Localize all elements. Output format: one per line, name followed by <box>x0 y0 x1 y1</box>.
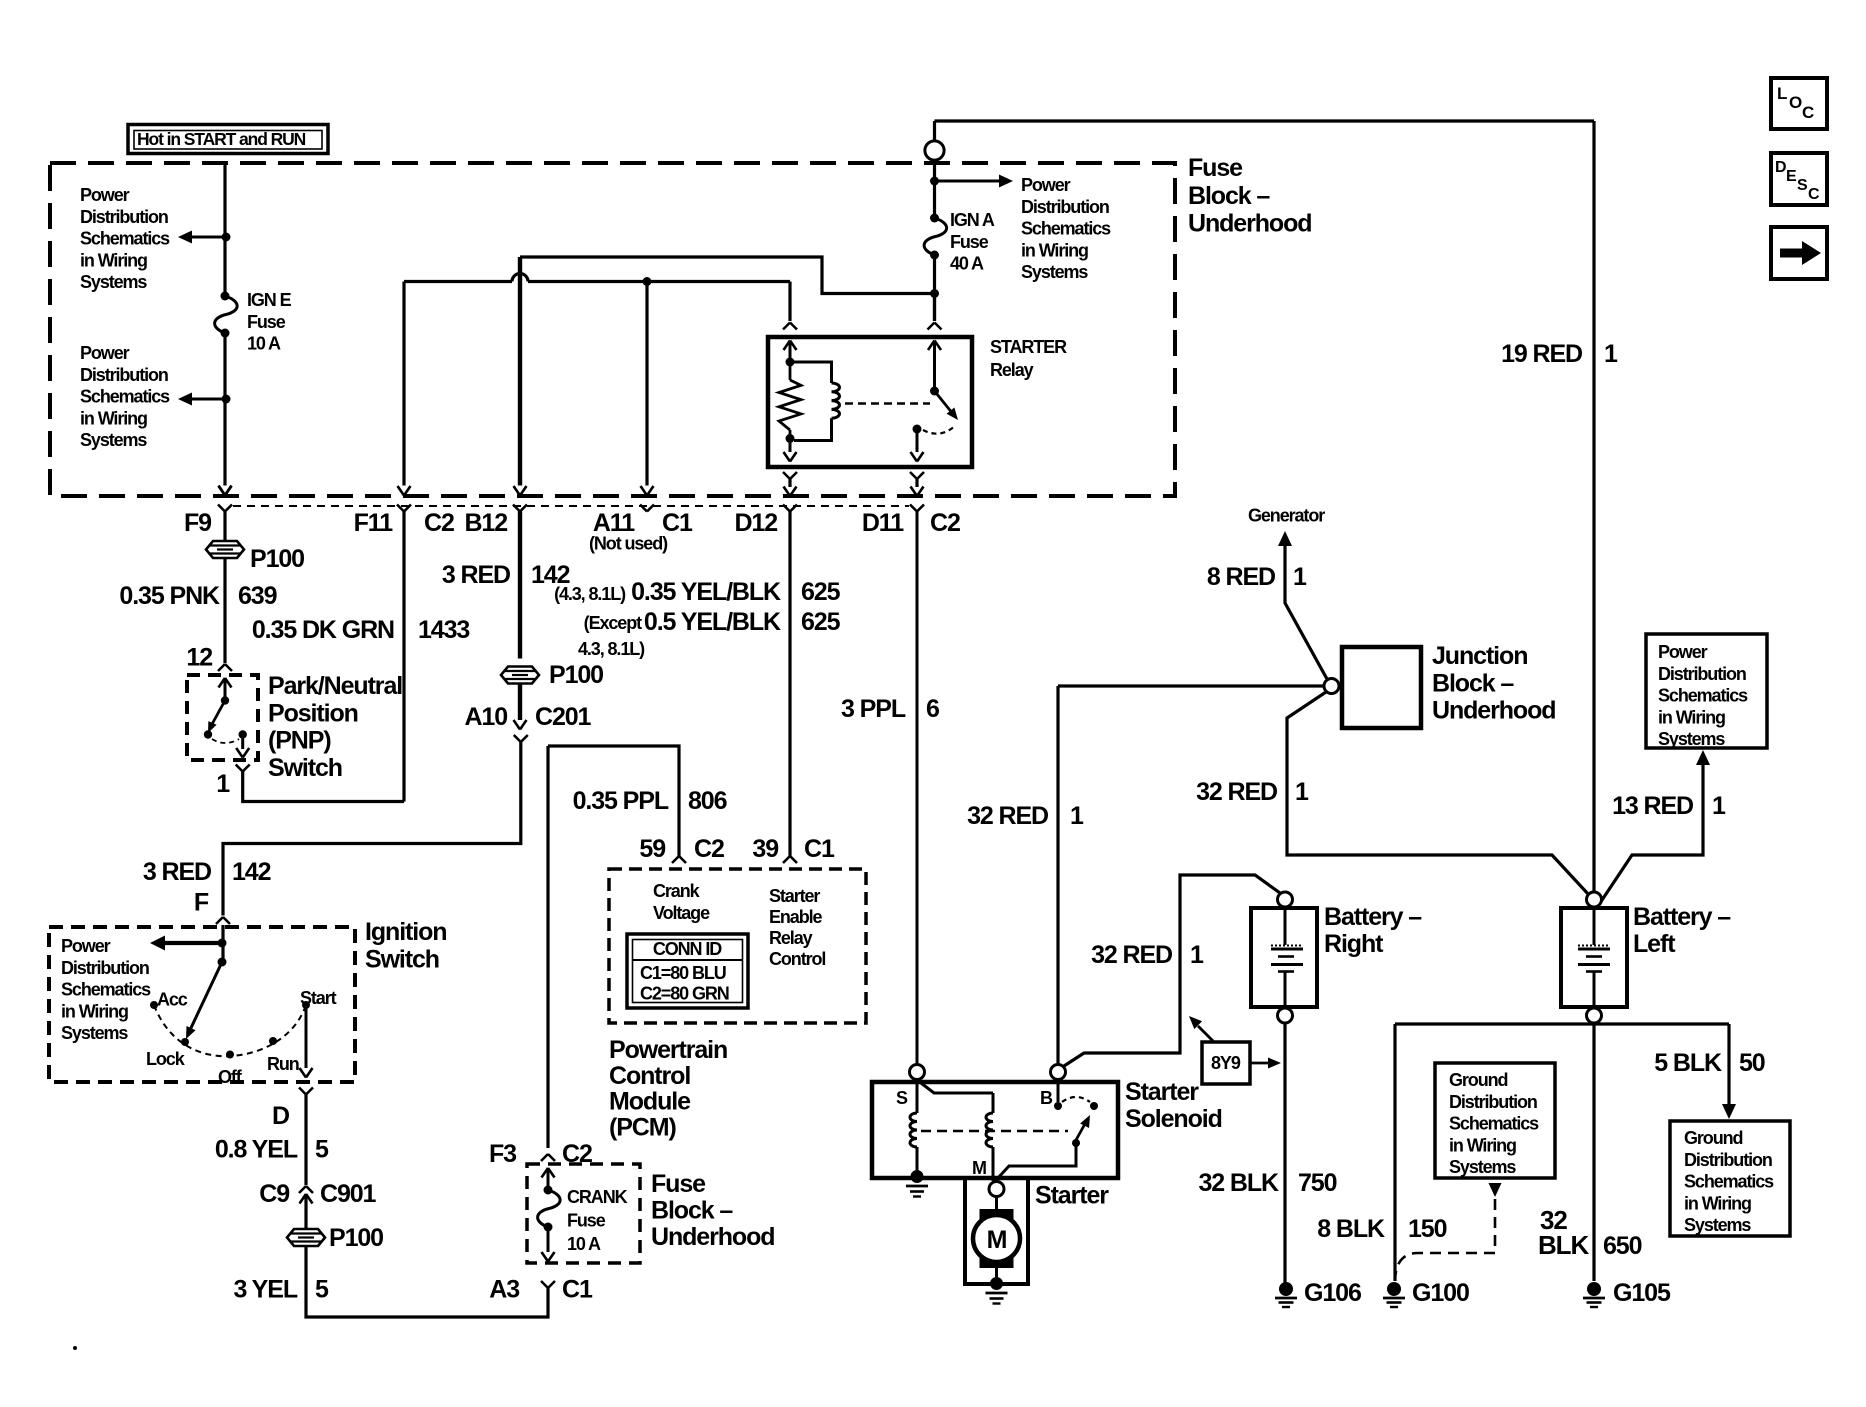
pin PCM 59 entry fork <box>672 856 679 863</box>
pin F3 entry fork <box>541 1154 548 1161</box>
connector C201 fork <box>514 735 521 742</box>
svg-text:Park/Neutral: Park/Neutral <box>268 672 402 700</box>
svg-text:(Except: (Except <box>584 613 642 633</box>
motor starter armature <box>980 1209 1014 1268</box>
svg-text:1: 1 <box>1295 778 1309 806</box>
svg-text:150: 150 <box>1408 1215 1447 1243</box>
svg-text:5: 5 <box>315 1276 329 1304</box>
svg-text:8 RED: 8 RED <box>1207 563 1275 591</box>
svg-text:Relay: Relay <box>769 928 813 948</box>
power distribution schematics box (right) <box>1646 634 1767 748</box>
svg-text:P100: P100 <box>250 545 304 573</box>
node relay coil bottom <box>786 434 795 443</box>
svg-text:1: 1 <box>1070 802 1084 830</box>
svg-text:Module: Module <box>609 1088 691 1116</box>
starter solenoid box <box>872 1082 1118 1178</box>
connector C901 fork pair <box>299 1186 306 1193</box>
pin B12 connector fork <box>513 505 520 512</box>
svg-text:Schematics: Schematics <box>1449 1114 1539 1134</box>
wire 8Y9 arrow to 32 BLK <box>1251 1062 1268 1065</box>
svg-text:CRANK: CRANK <box>567 1187 628 1207</box>
svg-text:50: 50 <box>1739 1049 1765 1077</box>
terminal circle junction block <box>1324 679 1339 694</box>
connector 8Y9 box <box>1202 1042 1250 1084</box>
svg-text:Power: Power <box>1021 175 1071 195</box>
svg-text:S: S <box>896 1088 908 1108</box>
wire solenoid switch to M <box>997 1146 1076 1179</box>
wire M to motor <box>995 1197 998 1211</box>
svg-text:Distribution: Distribution <box>1449 1092 1537 1112</box>
wire relay switch dashed link <box>845 402 930 405</box>
svg-text:Power: Power <box>1658 642 1708 662</box>
svg-text:12: 12 <box>186 644 212 672</box>
svg-text:0.35 YEL/BLK: 0.35 YEL/BLK <box>631 578 781 606</box>
node contact Run <box>269 1037 277 1045</box>
pin F11 wire and arrow <box>402 282 405 486</box>
CONN ID table <box>627 934 748 1008</box>
wire B12 to IGN A (upper run) <box>520 257 931 294</box>
svg-text:Switch: Switch <box>268 754 342 782</box>
node IGN E lower junction <box>222 395 231 404</box>
svg-text:32 RED: 32 RED <box>1196 778 1277 806</box>
node ignition rotor pivot <box>218 958 227 967</box>
pin F11 connector fork <box>397 505 404 512</box>
svg-text:Systems: Systems <box>80 430 147 450</box>
svg-text:C2: C2 <box>930 509 960 537</box>
wire relay common exit arrow <box>916 432 919 452</box>
PCM dashed box <box>609 869 866 1023</box>
ground G105 <box>1587 1282 1601 1296</box>
fuse IGN E 10A <box>221 292 230 301</box>
svg-text:Starter: Starter <box>1125 1078 1199 1106</box>
splice P100 (B12) <box>501 667 539 684</box>
pin F9 exit arrow <box>219 486 226 496</box>
svg-text:Starter: Starter <box>1035 1182 1109 1210</box>
battery left box <box>1561 908 1627 1007</box>
svg-text:C2: C2 <box>694 835 724 863</box>
pin crank fuse entry arrow <box>542 1168 549 1178</box>
pin A3 exit fork <box>541 1281 548 1288</box>
node IGN E upper junction <box>222 233 231 242</box>
svg-text:Schematics: Schematics <box>61 980 151 1000</box>
wire motor to ground <box>995 1262 998 1279</box>
node starter ground dot <box>990 1277 1003 1290</box>
pin relay coil entry arrow <box>784 341 791 351</box>
svg-text:in Wiring: in Wiring <box>80 408 147 428</box>
svg-text:Schematics: Schematics <box>1021 219 1111 239</box>
svg-text:A10: A10 <box>464 703 507 731</box>
svg-text:Fuse: Fuse <box>651 1170 706 1198</box>
node relay common contact <box>913 425 922 434</box>
splice P100 (C901) <box>287 1229 325 1246</box>
svg-text:C: C <box>1802 103 1814 122</box>
fuse CRANK 10A <box>544 1186 553 1195</box>
terminal circle battery right bottom <box>1278 1008 1293 1023</box>
wire 19 RED top bus <box>935 119 1595 122</box>
svg-text:Control: Control <box>609 1062 690 1090</box>
svg-text:Systems: Systems <box>80 272 147 292</box>
svg-text:650: 650 <box>1603 1232 1642 1260</box>
svg-text:Fuse: Fuse <box>567 1210 606 1230</box>
wire IGN A into relay switch <box>933 294 936 322</box>
wire B12 3 RED 142 <box>518 512 522 659</box>
svg-text:IGN A: IGN A <box>950 210 995 230</box>
svg-text:8 BLK: 8 BLK <box>1317 1215 1385 1243</box>
splice P100 (F9) <box>206 541 244 558</box>
wire relay D11 output leg <box>910 472 917 479</box>
wire B12 below P100 <box>518 684 522 721</box>
svg-text:Systems: Systems <box>1021 262 1088 282</box>
wire relay D12 output leg <box>783 472 790 479</box>
svg-text:1: 1 <box>216 770 230 798</box>
svg-text:C1: C1 <box>562 1276 593 1304</box>
wire 8 BLK 150 to G100 <box>1393 1024 1396 1281</box>
svg-text:L: L <box>1777 84 1787 103</box>
wire 0.35 YEL/BLK 625 (starter enable) <box>788 512 791 857</box>
svg-text:Ground: Ground <box>1684 1128 1742 1148</box>
svg-text:in Wiring: in Wiring <box>1449 1135 1516 1155</box>
terminal circle battery left top <box>1587 892 1602 907</box>
ground G100 <box>1387 1282 1401 1296</box>
terminal circle battery right top <box>1278 892 1293 907</box>
wire ignition dashed detent arc <box>154 1005 306 1056</box>
wire junction block to solenoid B 32 RED 1 <box>1058 684 1324 687</box>
svg-text:Block –: Block – <box>1432 669 1514 697</box>
wire junction block to battery left 32 RED 1 <box>1287 692 1589 895</box>
svg-text:in Wiring: in Wiring <box>80 250 147 270</box>
wire relay coil exit arrow <box>789 442 792 452</box>
svg-text:625: 625 <box>801 608 841 636</box>
wire ignition F feed <box>221 925 224 962</box>
svg-text:C1: C1 <box>804 835 835 863</box>
svg-text:C901: C901 <box>320 1180 377 1208</box>
svg-text:IGN E: IGN E <box>247 290 292 310</box>
svg-text:1: 1 <box>1190 941 1204 969</box>
svg-text:in Wiring: in Wiring <box>1021 240 1088 260</box>
svg-text:F3: F3 <box>489 1140 516 1168</box>
svg-text:C2=80 GRN: C2=80 GRN <box>640 984 729 1004</box>
svg-text:D: D <box>272 1102 289 1130</box>
svg-text:0.8 YEL: 0.8 YEL <box>215 1136 298 1164</box>
wire generator feed 8 RED 1 <box>1285 546 1327 679</box>
svg-text:M: M <box>972 1158 986 1178</box>
svg-text:Block –: Block – <box>651 1197 733 1225</box>
wire 3 PPL 6 to starter solenoid <box>916 512 919 1064</box>
svg-text:0.35 DK GRN: 0.35 DK GRN <box>252 616 394 644</box>
svg-text:Run: Run <box>267 1054 299 1074</box>
svg-text:5 BLK: 5 BLK <box>1654 1049 1722 1077</box>
crank fuse dashed box <box>527 1164 640 1263</box>
node relay switch fixed contact <box>930 387 939 396</box>
node solenoid switch pivot <box>1072 1139 1080 1147</box>
svg-text:(4.3, 8.1L): (4.3, 8.1L) <box>554 584 626 604</box>
node contact Start <box>302 1001 310 1009</box>
wire F9 0.35 PNK 639 <box>223 512 226 542</box>
pin A11 connector fork <box>640 505 647 512</box>
svg-text:4.3, 8.1L): 4.3, 8.1L) <box>578 639 645 659</box>
svg-text:625: 625 <box>801 578 841 606</box>
svg-text:Underhood: Underhood <box>1432 697 1555 725</box>
nav box LOC <box>1771 78 1827 129</box>
svg-text:(Not used): (Not used) <box>589 534 668 554</box>
wire A10 3 RED 142 to ignition <box>223 742 521 916</box>
svg-text:Schematics: Schematics <box>80 387 170 407</box>
wire solenoid B to contact <box>1057 1080 1060 1102</box>
node PNP left contact <box>204 730 212 738</box>
svg-text:in Wiring: in Wiring <box>61 1001 128 1021</box>
svg-text:Control: Control <box>769 949 825 969</box>
svg-text:39: 39 <box>752 835 778 863</box>
svg-text:Solenoid: Solenoid <box>1125 1105 1222 1133</box>
svg-text:Schematics: Schematics <box>1684 1172 1774 1192</box>
pin PNP 12 entry arrow <box>219 678 226 688</box>
svg-text:806: 806 <box>688 787 727 815</box>
svg-text:G106: G106 <box>1304 1279 1361 1307</box>
terminal circle solenoid B <box>1051 1065 1066 1080</box>
svg-text:B: B <box>1040 1088 1053 1108</box>
pin D12 connector fork <box>783 505 790 512</box>
junction block box <box>1342 647 1421 728</box>
svg-text:1: 1 <box>1293 563 1307 591</box>
node solenoid coil ground dot <box>911 1170 924 1183</box>
pin PCM 39 entry fork <box>783 856 790 863</box>
svg-text:Hot in START and RUN: Hot in START and RUN <box>137 129 306 149</box>
svg-text:Power: Power <box>80 185 130 205</box>
svg-text:Distribution: Distribution <box>1021 197 1109 217</box>
node contact Lock <box>181 1038 189 1046</box>
svg-text:142: 142 <box>232 858 271 886</box>
svg-text:M: M <box>987 1226 1007 1254</box>
svg-text:C9: C9 <box>259 1180 289 1208</box>
wire PNP dashed throw arc <box>212 739 239 743</box>
svg-text:Systems: Systems <box>1684 1215 1751 1235</box>
svg-text:Schematics: Schematics <box>1658 686 1748 706</box>
svg-text:32 BLK: 32 BLK <box>1198 1169 1279 1197</box>
svg-text:Systems: Systems <box>61 1023 128 1043</box>
wire thick arrow to power distribution <box>165 941 222 945</box>
svg-text:Schematics: Schematics <box>80 229 170 249</box>
svg-text:3 RED: 3 RED <box>442 561 510 589</box>
wire solenoid switch arm <box>1076 1122 1086 1140</box>
svg-text:3 YEL: 3 YEL <box>233 1276 297 1304</box>
svg-text:C: C <box>1808 186 1820 203</box>
svg-text:Fuse: Fuse <box>1188 154 1243 182</box>
svg-text:Battery –: Battery – <box>1633 903 1731 931</box>
svg-text:Distribution: Distribution <box>61 958 149 978</box>
wire 8Y9 arrow to 32 RED <box>1198 1026 1213 1041</box>
node contact Acc <box>150 1001 158 1009</box>
svg-text:32 RED: 32 RED <box>1091 941 1172 969</box>
svg-text:1: 1 <box>1604 340 1618 368</box>
pin F entry fork <box>216 917 223 924</box>
node IGN A arrow junction <box>930 177 939 186</box>
wire IGN A fuse feed <box>933 160 936 218</box>
svg-text:B12: B12 <box>464 509 507 537</box>
svg-text:D11: D11 <box>862 509 904 537</box>
wire 32 BLK 750 to G106 <box>1283 1024 1286 1283</box>
inductor solenoid hold-in winding <box>916 1080 919 1113</box>
wire 0.35 PPL 806 (crank voltage) <box>548 746 679 856</box>
wire PNP-1 to F11 1433 <box>243 772 404 802</box>
wire F11 0.35 DK GRN 1433 <box>402 512 405 802</box>
node relay coil top <box>786 358 795 367</box>
svg-text:13 RED: 13 RED <box>1612 792 1693 820</box>
node solenoid B contact <box>1054 1102 1062 1110</box>
pin PNP 1 exit arrow <box>241 738 244 749</box>
pin A11 wire and arrow (not used) <box>645 282 648 486</box>
ground distribution schematics box (G105) <box>1670 1121 1790 1236</box>
svg-text:6: 6 <box>926 695 939 723</box>
svg-text:750: 750 <box>1298 1169 1337 1197</box>
svg-text:32 RED: 32 RED <box>967 802 1048 830</box>
svg-text:CONN ID: CONN ID <box>653 939 722 959</box>
wire crank fuse output arrow <box>547 1228 550 1252</box>
stray dot <box>73 1346 77 1350</box>
svg-text:3 PPL: 3 PPL <box>841 695 906 723</box>
svg-text:59: 59 <box>639 835 665 863</box>
svg-text:10 A: 10 A <box>567 1234 601 1254</box>
svg-text:Ignition: Ignition <box>365 918 446 946</box>
svg-text:19 RED: 19 RED <box>1501 340 1582 368</box>
svg-text:Fuse: Fuse <box>950 232 989 252</box>
pin F9 connector fork <box>218 505 225 512</box>
svg-text:Distribution: Distribution <box>1684 1150 1772 1170</box>
svg-text:Powertrain: Powertrain <box>609 1036 727 1064</box>
pin D exit fork <box>299 1088 306 1095</box>
pin relay switch entry arrow <box>928 341 935 351</box>
nav box arrow <box>1771 227 1827 279</box>
svg-text:Systems: Systems <box>1449 1157 1516 1177</box>
svg-text:F: F <box>194 889 209 917</box>
wire arrow to power distribution (lower) <box>192 398 226 401</box>
fuse IGN A 40A <box>930 214 939 223</box>
svg-text:Power: Power <box>80 343 130 363</box>
svg-text:Power: Power <box>61 936 111 956</box>
svg-text:Junction: Junction <box>1432 642 1527 670</box>
svg-text:0.5 YEL/BLK: 0.5 YEL/BLK <box>644 608 781 636</box>
svg-text:G100: G100 <box>1412 1279 1469 1307</box>
inductor relay coil <box>794 362 832 383</box>
battery left plates <box>1578 945 1610 947</box>
svg-text:1: 1 <box>1712 792 1726 820</box>
ignition switch dashed box <box>49 927 355 1082</box>
svg-text:P100: P100 <box>549 661 603 689</box>
PNP switch dashed box <box>187 675 258 760</box>
svg-text:Relay: Relay <box>990 360 1034 380</box>
wire arrow to power distribution (upper) <box>192 236 226 239</box>
pin B12 wire and arrow <box>518 257 522 486</box>
fuse block underhood dashed border <box>50 163 1175 496</box>
pin 12 entry fork <box>218 664 225 671</box>
svg-text:in Wiring: in Wiring <box>1684 1193 1751 1213</box>
battery right plates <box>1271 945 1303 947</box>
wire dashed link to G100 <box>1395 1199 1495 1280</box>
node A11 tap <box>643 277 652 286</box>
label box Hot in START and RUN <box>128 125 328 154</box>
svg-text:Acc: Acc <box>157 990 188 1010</box>
svg-text:Systems: Systems <box>1658 729 1725 749</box>
svg-text:0.35 PNK: 0.35 PNK <box>119 582 220 610</box>
svg-text:Distribution: Distribution <box>1658 664 1746 684</box>
ground starter internal <box>986 1292 1008 1295</box>
ground solenoid internal <box>906 1185 928 1188</box>
svg-text:Left: Left <box>1633 930 1676 958</box>
wire dashed arrow below ground box <box>1489 1183 1502 1197</box>
wire 32 BLK 650 to G105 <box>1592 1024 1595 1281</box>
svg-text:D: D <box>1775 159 1786 176</box>
svg-text:C2: C2 <box>424 509 454 537</box>
svg-text:C201: C201 <box>535 703 592 731</box>
svg-text:Battery –: Battery – <box>1324 903 1422 931</box>
svg-text:F11: F11 <box>354 509 394 537</box>
ground G106 <box>1279 1282 1293 1296</box>
connector fine dashed line C1 C2 <box>233 505 909 507</box>
wire ignition rotor arm <box>190 962 222 1030</box>
svg-text:Underhood: Underhood <box>651 1223 774 1251</box>
svg-text:E: E <box>1786 168 1797 185</box>
svg-text:G105: G105 <box>1613 1279 1671 1307</box>
wire PNP switch arm <box>211 701 225 727</box>
wire 13 RED 1 to power distribution <box>1600 764 1703 903</box>
svg-text:S: S <box>1797 177 1808 194</box>
svg-text:Right: Right <box>1324 930 1384 958</box>
svg-text:C1=80 BLU: C1=80 BLU <box>640 963 726 983</box>
svg-text:Generator: Generator <box>1248 506 1325 526</box>
terminal circle starter M <box>989 1182 1004 1197</box>
wire battery left ground bus <box>1395 1022 1729 1025</box>
terminal circle battery left bottom <box>1587 1008 1602 1023</box>
wire F11-A11-D12 run with hop <box>404 280 512 283</box>
svg-text:Switch: Switch <box>365 946 439 974</box>
pin D11 connector fork <box>910 505 917 512</box>
svg-text:(PCM): (PCM) <box>609 1113 676 1141</box>
wire 5 BLK 50 <box>1727 1024 1730 1104</box>
svg-text:Distribution: Distribution <box>80 365 168 385</box>
svg-text:A3: A3 <box>489 1276 519 1304</box>
svg-text:Lock: Lock <box>146 1049 186 1069</box>
svg-text:Voltage: Voltage <box>653 903 710 923</box>
wire Start output <box>305 1005 308 1068</box>
starter relay box <box>768 337 972 467</box>
ground distribution schematics box (G100) <box>1435 1063 1555 1178</box>
svg-text:Position: Position <box>268 699 358 727</box>
svg-text:0.35 PPL: 0.35 PPL <box>573 787 669 815</box>
battery right box <box>1251 908 1317 1007</box>
svg-text:Ground: Ground <box>1449 1070 1507 1090</box>
wire D12 branch into relay <box>788 282 791 322</box>
wire solenoid dashed link <box>921 1130 1068 1133</box>
svg-text:3 RED: 3 RED <box>143 858 211 886</box>
wire relay switch dashed throw arc <box>923 426 955 434</box>
starter box <box>965 1178 1028 1284</box>
svg-text:Fuse: Fuse <box>247 312 286 332</box>
node solenoid throw contact <box>1090 1102 1098 1110</box>
wire 3 YEL 5 to crank fuse <box>306 1246 548 1317</box>
wire relay switch arm <box>935 391 954 414</box>
svg-text:BLK: BLK <box>1538 1230 1589 1260</box>
svg-text:Starter: Starter <box>769 886 820 906</box>
svg-text:40 A: 40 A <box>950 254 984 274</box>
svg-text:5: 5 <box>315 1136 329 1164</box>
svg-text:(PNP): (PNP) <box>268 727 331 755</box>
wire solenoid dashed throw arc <box>1062 1097 1090 1102</box>
svg-text:10 A: 10 A <box>247 334 281 354</box>
svg-text:STARTER: STARTER <box>990 337 1067 357</box>
svg-text:Underhood: Underhood <box>1188 210 1311 238</box>
terminal circle IGN A battery feed <box>933 121 936 141</box>
node PNP right contact <box>239 730 247 738</box>
node PNP top contact <box>221 696 229 704</box>
